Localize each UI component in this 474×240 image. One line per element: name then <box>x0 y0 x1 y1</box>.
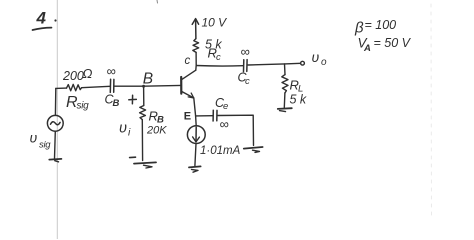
wire: CC to output terminal <box>248 63 301 65</box>
wire: vsig to ground <box>54 131 57 159</box>
svg-text:sig: sig <box>77 101 90 112</box>
notebook margin line <box>56 0 58 239</box>
label 10 V <box>202 16 228 30</box>
svg-text:υ: υ <box>119 121 127 137</box>
problem number 4. <box>33 9 57 31</box>
wire: input top from left corner to resistor Rsig <box>56 87 67 89</box>
label E <box>184 110 191 122</box>
wire: CB to node B to transistor base <box>115 84 181 87</box>
svg-text:υ: υ <box>312 49 320 65</box>
svg-text:A: A <box>363 43 371 54</box>
top tick mark <box>156 0 159 3</box>
resistor Rsig <box>67 84 82 90</box>
label vi <box>119 121 131 139</box>
resistor RL <box>282 75 288 93</box>
label 20K <box>146 125 167 137</box>
svg-text:c: c <box>185 55 191 67</box>
annotation beta = 100 <box>354 18 396 37</box>
label 1.01 mA <box>200 145 241 157</box>
svg-text:Ω: Ω <box>83 66 93 81</box>
label CC <box>238 71 251 88</box>
label - (vi polarity) <box>130 156 136 158</box>
capacitor CE <box>213 110 217 121</box>
ground under CE branch <box>244 147 263 152</box>
wire: RB to ground <box>141 120 143 161</box>
label RL <box>290 78 304 95</box>
svg-text:c: c <box>216 52 221 63</box>
label 200 ohm <box>62 66 93 83</box>
label Rsig <box>66 94 89 112</box>
label infinity above CC <box>241 44 250 59</box>
wire: node B down to resistor RB <box>143 86 145 105</box>
label B <box>143 71 153 88</box>
output terminal vo <box>301 61 305 65</box>
svg-text:c: c <box>245 76 250 87</box>
resistor RB <box>140 106 146 120</box>
svg-text:= 50 V: = 50 V <box>374 36 412 50</box>
label vsig <box>30 130 52 151</box>
svg-text:200: 200 <box>62 69 84 83</box>
label vo <box>312 49 328 68</box>
ground under RL <box>278 108 292 111</box>
wire: node E to capacitor CE <box>196 115 213 117</box>
annotation VA = 50 V <box>358 36 412 55</box>
svg-text:B: B <box>143 71 153 88</box>
svg-text:E: E <box>184 110 191 122</box>
svg-text:5 k: 5 k <box>290 93 307 107</box>
svg-text:20K: 20K <box>146 125 167 137</box>
svg-text:∞: ∞ <box>107 64 116 79</box>
svg-text:∞: ∞ <box>241 44 250 59</box>
label C <box>185 55 191 67</box>
node B junction dot <box>142 85 145 88</box>
ground under vsig <box>49 159 61 162</box>
svg-text:i: i <box>128 127 131 139</box>
label 5k (RC) <box>205 38 222 52</box>
wire: RL to ground <box>283 93 286 108</box>
transistor Q1 <box>181 70 196 98</box>
wire: current source to ground <box>195 144 196 166</box>
svg-text:4: 4 <box>36 9 47 28</box>
label RC <box>208 46 222 64</box>
svg-text:υ: υ <box>30 130 38 146</box>
svg-text:sig: sig <box>39 140 51 151</box>
wire: emitter down to node E and current source <box>194 98 196 126</box>
wire: node C up to resistor RC <box>195 52 197 65</box>
capacitor CC <box>244 60 248 72</box>
capacitor CB <box>110 79 114 92</box>
label CB <box>105 93 120 110</box>
AC source vsig <box>47 115 63 131</box>
svg-text:= 100: = 100 <box>365 18 397 32</box>
label + (vi polarity) <box>129 95 137 104</box>
label CE <box>215 96 228 112</box>
svg-text:e: e <box>223 101 228 112</box>
svg-text:1·01mA: 1·01mA <box>200 145 241 157</box>
ground under RB <box>134 162 156 168</box>
supply arrow 10V <box>192 19 198 39</box>
svg-text:∞: ∞ <box>220 117 229 132</box>
svg-text:β: β <box>354 20 364 37</box>
wire: node C to capacitor CC <box>196 65 243 68</box>
current source I1 <box>187 126 205 144</box>
wire: CE right then down to ground <box>218 115 254 145</box>
label 5k (RL) <box>290 93 307 107</box>
wire: left vertical down to source vsig <box>54 88 56 115</box>
wire: collector up to node C <box>195 65 197 70</box>
svg-text:10 V: 10 V <box>202 16 228 30</box>
svg-text:B: B <box>113 98 120 109</box>
label infinity below CE <box>220 117 229 132</box>
wire: junction down to resistor RL <box>284 64 287 75</box>
label RB <box>149 109 165 126</box>
ground under current source <box>189 166 201 172</box>
svg-text:o: o <box>321 57 327 68</box>
resistor RC <box>193 39 199 53</box>
faint right page edge <box>430 4 433 218</box>
wire: Rsig to capacitor CB <box>82 86 110 87</box>
label infinity above CB <box>107 64 116 79</box>
